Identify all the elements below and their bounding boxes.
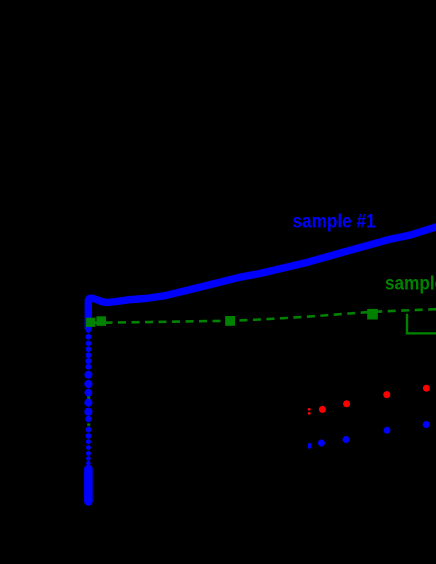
green dashed curve sample #2 (horizontal part) bbox=[91, 309, 436, 323]
green square markers bbox=[86, 309, 378, 327]
svg-text:sample #2: sample #2 bbox=[385, 273, 436, 295]
blue markers on vertical segment bbox=[84, 328, 92, 466]
svg-text:sample #1: sample #1 bbox=[293, 211, 376, 233]
green partial box: bottom edge bbox=[406, 332, 436, 334]
blue curve sample #1 bbox=[88, 227, 436, 328]
blue scatter dots bbox=[308, 421, 430, 449]
green peek dash on vertical line (lower) bbox=[87, 423, 90, 425]
green partial box: left edge bbox=[406, 314, 408, 335]
red scatter dots bbox=[308, 385, 430, 415]
green peek dash on vertical line (upper) bbox=[87, 396, 90, 399]
blue bottom solid bar bbox=[84, 469, 93, 501]
